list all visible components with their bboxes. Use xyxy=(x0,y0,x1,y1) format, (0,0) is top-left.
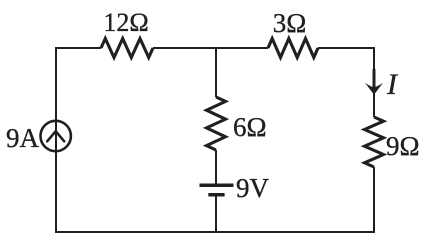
wire top-right segment xyxy=(318,48,374,117)
wire middle top xyxy=(215,48,217,97)
svg-text:6Ω: 6Ω xyxy=(233,112,267,142)
current arrow I shaft xyxy=(373,69,376,89)
svg-text:9A: 9A xyxy=(6,123,40,153)
resistor R3 6ohm xyxy=(207,97,226,150)
wire middle below battery xyxy=(215,195,217,232)
wire top-middle segment xyxy=(153,47,268,49)
current source arrow chevron xyxy=(47,131,64,141)
svg-text:9V: 9V xyxy=(236,173,270,203)
svg-text:12Ω: 12Ω xyxy=(103,8,148,37)
wire left below source xyxy=(55,152,57,231)
wire bottom xyxy=(55,231,375,233)
resistor R1 12ohm xyxy=(101,39,153,58)
current source I1 circle xyxy=(41,121,71,151)
wire through current source xyxy=(55,120,57,152)
battery V1 short plate xyxy=(208,193,224,197)
wire top-left segment xyxy=(56,48,101,120)
current arrow I head xyxy=(365,83,383,95)
wire middle between 6ohm and battery xyxy=(215,150,217,185)
resistor R4 9ohm xyxy=(365,117,384,167)
battery V1 long plate xyxy=(200,183,234,187)
resistor R2 3ohm xyxy=(268,39,318,58)
svg-text:3Ω: 3Ω xyxy=(273,8,307,38)
wire right below 9ohm xyxy=(373,167,375,232)
svg-text:I: I xyxy=(386,68,399,101)
svg-text:9Ω: 9Ω xyxy=(386,131,420,161)
